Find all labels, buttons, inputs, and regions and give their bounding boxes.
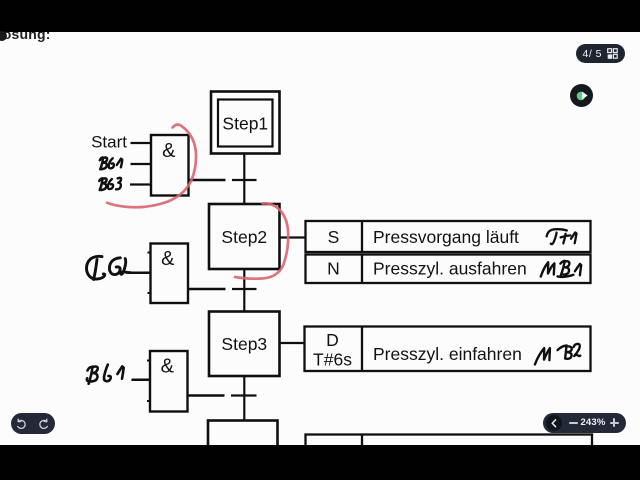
svg-text:S: S	[328, 227, 340, 247]
svg-text:Step1: Step1	[222, 114, 268, 134]
svg-text:Presszyl. einfahren: Presszyl. einfahren	[373, 344, 522, 364]
svg-text:Presszyl. ausfahren: Presszyl. ausfahren	[373, 258, 527, 278]
svg-text:&: &	[161, 248, 175, 270]
svg-text:N: N	[327, 259, 340, 279]
svg-text:&: &	[162, 140, 176, 162]
svg-text:Step3: Step3	[221, 334, 267, 354]
svg-text:T#6s: T#6s	[313, 350, 352, 370]
svg-text:&: &	[161, 356, 175, 378]
svg-text:Step2: Step2	[221, 227, 267, 247]
svg-text:D: D	[326, 330, 339, 350]
svg-text:Pressvorgang läuft: Pressvorgang läuft	[373, 227, 519, 247]
svg-text:Start: Start	[91, 133, 127, 152]
